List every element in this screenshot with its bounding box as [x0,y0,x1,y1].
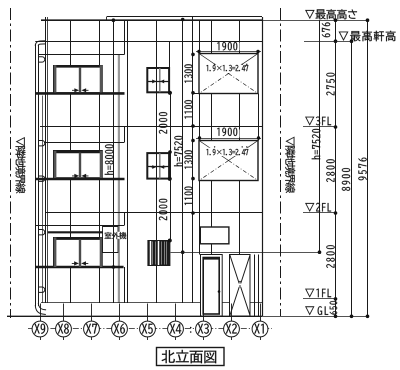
pipe bracket 4 [39,230,45,235]
right h=7520 dimension line [318,20,322,254]
middle chain x=170 [168,91,172,243]
wall line x=192 [192,17,194,303]
pipe bracket 2 [39,141,45,146]
pipe bracket 3 [39,176,45,181]
base line [41,302,262,304]
lintel band 3F [38,54,125,56]
max height line [41,19,262,21]
wall line x=169.6 above 3F window [169,41,171,68]
entrance door D1 [201,255,223,317]
level 1FL [303,298,336,300]
wall line x=258 [258,94,260,141]
building right wall [262,17,264,316]
1F window head band [48,231,103,233]
2F small window W5 [147,153,169,179]
eave height line [35,41,262,43]
level GL [305,306,328,315]
level 2FL [303,212,336,214]
wall line x=239.5 [239,20,241,254]
pipe top elbow [35,41,45,46]
rain pipe [35,44,37,306]
2F window W2 [54,151,103,179]
lintel band 1F [35,225,124,227]
boundary tick dots near X3 [190,327,192,329]
level 3FL [303,126,336,128]
wall line x=211.4 [211,20,213,227]
right boundary label [285,137,295,193]
left boundary label [16,137,26,193]
level label max height [305,9,357,19]
grid X3 [196,304,212,341]
1F sill band [35,266,123,268]
left neighbor boundary line [10,8,12,318]
pipe bracket 5 [39,287,45,292]
wall line x=156.4 [156,20,158,240]
grid X9 [32,304,48,341]
sign stem [211,244,213,255]
dimension 1900 3F [196,43,261,54]
wall line x=254 [254,255,256,317]
area text 3F [206,65,248,71]
grid X6 [112,304,128,341]
lighting window X-box 2F [199,141,258,181]
grid X1 [252,304,268,341]
title text [162,350,217,363]
pipe side line [42,96,44,304]
stair glass divider (grey) [118,54,120,303]
wall line x=199.5 [199,20,201,254]
grid X2 [224,304,240,341]
right chain x=335.5 [334,18,338,318]
entrance sign box [200,227,229,244]
stair zone verticals [124,20,126,54]
2F balcony sill band [35,178,124,181]
ground line [7,315,262,317]
grid X5 [140,304,156,341]
garage shutter [230,255,251,317]
pipe elbow [35,305,46,315]
facade vertical x=71 [70,20,72,65]
3FL line [40,126,262,128]
1F window W3 [54,238,103,268]
facade vertical x=99.5 [99,20,101,65]
building left wall [45,17,47,303]
h=8000 dimension line [112,18,116,303]
1F louver window W6 [147,239,171,266]
grid X7 [84,304,100,341]
right chain 8900 [350,39,354,318]
title box [157,348,225,366]
grid connector line [28,328,272,330]
2FL line [46,212,262,214]
right neighbor boundary line [280,8,282,316]
AC unit label [105,232,127,239]
area text 3F repeating dots [214,64,215,65]
3F small window W4 [147,68,169,92]
pipe bracket 1 [39,57,45,62]
grid X4 [168,304,184,341]
AC unit dashed box [103,227,119,253]
lighting window X-box 3F [199,54,258,94]
grid X8 [56,304,72,341]
dimension 1900 2F [196,130,261,140]
lintel band 2F [44,142,124,144]
area text 2F [206,149,248,155]
penthouse top line [107,16,262,18]
area text 2F repeating dots [214,146,215,147]
3F window W1 [54,65,103,93]
middle chain x=193 [191,53,199,215]
level label max eave [304,41,352,43]
horizontal connector y=252 [171,252,320,254]
right chain 9576 [366,18,370,318]
h=7520 left dimension line [181,18,185,303]
3F balcony sill band [35,92,124,95]
